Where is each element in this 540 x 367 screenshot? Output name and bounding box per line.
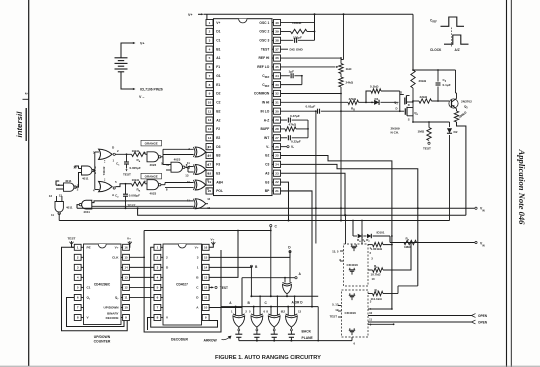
U1 pin 32 (COMMON) [254,90,281,96]
wire XOR A out [205,151,208,153]
label DIG GND on TEST pin [281,47,304,51]
switch block CD4016 lower [330,290,373,337]
svg-text:47kΩ: 47kΩ [349,97,357,101]
svg-text:ORANGE: ORANGE [145,142,158,146]
svg-text:D1: D1 [375,97,379,101]
transistor Q3 2N169 [394,91,413,113]
svg-text:0.1μF: 0.1μF [443,83,451,87]
svg-text:4023: 4023 [150,163,157,167]
resistor 1M clock test [418,122,432,151]
svg-text:G1: G1 [216,74,221,78]
svg-text:26: 26 [275,145,279,149]
U3 pin right 9 [202,315,210,321]
gate 4030 display XOR 1 [231,278,247,327]
wire XOR D out [206,203,208,205]
wire XOR inputs from 4023 [92,149,194,206]
U1 pin 24 (C3) [265,161,280,167]
svg-text:7: 7 [209,74,211,78]
wire battery - to ICL7106 PIN26 [121,72,133,89]
svg-text:10.7kΩ: 10.7kΩ [371,272,382,276]
svg-text:0.005μF: 0.005μF [130,166,141,170]
wire 4023A to 4023C [161,157,171,170]
svg-text:24: 24 [275,163,279,167]
svg-text:10: 10 [369,311,373,315]
svg-text:1MΩ: 1MΩ [404,245,411,249]
svg-text:29: 29 [275,118,279,122]
svg-text:COUNTER: COUNTER [94,340,111,344]
gate 4030 XOR B [188,163,209,176]
svg-text:10: 10 [124,306,128,310]
U1 pin 28 (BUFF) [261,126,281,132]
svg-text:11: 11 [369,317,372,321]
gate 4011 C vertical [49,194,73,217]
svg-text:TEST: TEST [220,286,228,290]
svg-text:G3: G3 [265,180,270,184]
svg-text:Application Note 046: Application Note 046 [517,149,527,226]
svg-text:IN LO: IN LO [261,109,270,113]
U2 pin 8 [74,315,89,321]
svg-text:POL: POL [216,189,223,193]
svg-text:ARROW: ARROW [204,339,218,343]
svg-text:13: 13 [204,276,208,280]
page right rules [507,0,512,367]
resistor RA 1.001k [368,242,393,251]
svg-text:0.01μF: 0.01μF [306,105,316,109]
svg-text:10: 10 [204,306,208,310]
U1 pin 13 (F2) [206,126,220,132]
svg-text:CLK: CLK [112,256,119,260]
svg-text:1: 1 [209,21,211,25]
U2 pin 3 [74,264,83,270]
wire OSC1 to rail [281,14,315,40]
wire lcd common rail [239,307,356,346]
svg-text:BINARY: BINARY [107,312,118,316]
svg-text:12: 12 [208,118,212,122]
wire decoder A row to node A [209,278,242,308]
wire bus VIN2 [390,241,477,243]
capacitor 0.22uF INT [281,135,309,143]
wire IN LO to Q4 [341,110,401,112]
capacitor 0.01uF IN LO [281,105,342,114]
svg-text:35: 35 [275,65,279,69]
U3 pin left 5 [154,284,163,290]
U3 pin left 6 [154,294,163,300]
gate XOR big A-OR-D [283,282,292,296]
svg-text:10kΩ: 10kΩ [132,178,140,182]
U1 pin 29 (A-Z) [264,117,281,123]
wire 4011D out to VIN bus [77,205,79,209]
U3 pin left 4 [154,274,163,280]
gate 4030 display XOR 2 [249,295,265,327]
U1 pin 25 (G2) [265,152,281,158]
svg-text:16: 16 [204,245,208,249]
svg-text:10: 10 [372,277,376,281]
svg-text:D2: D2 [216,92,220,96]
svg-text:V –: V – [139,95,144,99]
svg-text:C1: C1 [87,286,91,290]
node C [270,224,278,296]
svg-text:F1: F1 [216,65,220,69]
svg-text:S: S [400,91,402,95]
wire XOR C out [205,184,208,186]
svg-text:5.1kΩ: 5.1kΩ [370,85,379,89]
wire decoder B row to node B [209,266,251,267]
svg-text:4023: 4023 [174,158,181,162]
svg-text:4011: 4011 [82,177,89,181]
svg-text:RA RB RC: RA RB RC [357,238,370,243]
svg-text:13: 13 [208,127,212,131]
wire 1M top link [412,101,449,123]
U1 pin 21 (BP) [265,188,281,194]
U1 pin 9 (D2) [206,90,221,96]
potentiometer 1k [339,58,352,73]
svg-text:A OR D: A OR D [292,301,304,305]
wire IN LO down [315,110,317,243]
resistor RA 10k [115,149,147,163]
U1 pin 15 (D3) [206,144,221,150]
U1 pin 38 (OSC 3) [259,37,280,43]
svg-text:B1: B1 [216,47,220,51]
wire 4023B out [161,184,165,186]
wire lower box row9 [368,323,395,325]
wire clock top node [412,69,455,71]
wire 4011B inputs [56,181,64,189]
U2 pin 2 [74,254,83,260]
U1 pin 39 (OSC 2) [259,28,280,34]
wire REF HI [281,57,342,59]
wire rail to pot top [340,14,343,59]
resistor 20k [411,70,427,101]
wire counter to decoder rows [129,267,154,297]
svg-text:DIG GND: DIG GND [290,47,304,51]
U3 pin right 12 [196,284,209,290]
gate 74C32 OR A [93,145,119,162]
gate 4023 A [144,151,163,167]
svg-text:20kΩ: 20kΩ [419,79,427,83]
gate 4011 B [58,179,79,198]
wire COMMON [281,93,342,221]
U1 pin 5 (A1) [206,55,221,61]
svg-text:15: 15 [204,255,208,259]
U1 pin 3 (C1) [206,37,221,43]
U1 pin 27 (INT) [264,135,281,141]
svg-text:A-Z: A-Z [264,118,270,122]
svg-text:F3: F3 [216,163,220,167]
svg-text:12: 12 [207,197,210,201]
svg-text:DECODE: DECODE [106,316,119,320]
wire CREF- loop [281,75,303,85]
labels A B C AORD [229,301,303,306]
U2 pin 16 [115,244,130,250]
label ORANGE bottom [141,173,162,179]
node V- pin26 [281,145,295,149]
svg-text:V+: V+ [216,21,220,25]
resistor 22k [412,95,449,103]
U1 pin 19 (AB4) [206,179,223,185]
U1 pin 4 (B1) [206,46,221,52]
svg-text:B2: B2 [216,109,220,113]
label V+ decoder [209,237,215,247]
svg-text:11: 11 [208,109,212,113]
U1 pin 26 (V-) [266,144,280,150]
U1 pin 17 (F3) [206,161,220,167]
U3 pin right 14 [197,264,209,270]
svg-text:0.22μF: 0.22μF [291,139,301,143]
wire switch control droppers [345,214,363,244]
wire bus VIN1 [77,207,477,209]
gate 4023 C [166,158,190,178]
svg-text:40: 40 [275,21,279,25]
svg-text:16: 16 [124,245,128,249]
U1 pin 6 (F1) [206,64,220,70]
svg-text:INT: INT [264,136,269,140]
wire counter loop [62,247,128,330]
IC U1 ICL7106 body [214,19,273,196]
U2 pin 5 [74,284,90,290]
svg-text:V+: V+ [127,237,131,241]
label 74C32 [102,160,106,182]
svg-text:33: 33 [275,83,279,87]
svg-text:25: 25 [275,154,279,158]
U3 pin left 8 [154,315,169,321]
svg-text:1.001kΩ: 1.001kΩ [371,247,383,251]
wire 4011B out to 4011A in [75,166,82,187]
U1 pin 23 (A3) [265,170,280,176]
U2 pin 15 [112,254,129,260]
svg-text:13: 13 [185,173,189,177]
svg-text:D2: D2 [454,130,458,134]
wire C3 exit [281,164,418,286]
svg-text:V+: V+ [140,42,145,46]
resistor 47k BUFF [281,123,309,132]
diodes ID101 [353,230,390,243]
page bottom edge [0,365,540,367]
svg-text:22: 22 [275,180,279,184]
svg-text:14: 14 [204,266,208,270]
svg-text:24kΩ: 24kΩ [346,81,354,85]
svg-text:2: 2 [24,93,28,95]
wire 4011A out to OR inputs [93,152,99,190]
svg-text:2N3702: 2N3702 [461,100,472,104]
svg-text:E2: E2 [216,136,220,140]
label TEST counter [68,237,76,248]
svg-text:34: 34 [275,74,279,78]
svg-text:intersil: intersil [15,111,24,138]
wiper arrow REF LO [281,66,339,68]
LCD segment 3 [271,327,278,340]
wire decoder C test arrow [209,286,228,290]
svg-text:E1: E1 [216,83,220,87]
resistor RX 1M [404,236,417,249]
svg-text:15: 15 [124,255,128,259]
svg-text:N CH.: N CH. [391,130,400,134]
U3 pin right 16 [195,244,209,250]
svg-text:TEST: TEST [123,172,131,176]
svg-text:DECODER: DECODER [171,338,189,342]
svg-text:C1: C1 [216,39,220,43]
wire switch box stubs [338,251,344,317]
svg-text:3: 3 [209,38,211,42]
wire integrator rail [307,120,309,138]
wire backplane bus [221,306,318,308]
wire G3 exit [281,182,289,220]
svg-text:10: 10 [208,100,212,104]
svg-text:IN HI: IN HI [262,101,270,105]
svg-text:CD4016: CD4016 [345,311,357,315]
svg-text:D: D [396,106,398,110]
page left rule [28,0,30,366]
capacitor 0.47uF A-Z [281,114,309,123]
capacitor 100pF OSC [281,35,315,43]
svg-text:11: 11 [204,296,208,300]
svg-text:32: 32 [275,92,279,96]
gate 4011 D [79,200,92,214]
svg-text:FIGURE 1. AUTO RANGING CIRCUI: FIGURE 1. AUTO RANGING CIRCUITRY [215,355,321,361]
wire V+ to U1 pin 1 [206,14,208,19]
resistor 47k IN HI [348,97,372,111]
U2 pin 10 [104,304,130,310]
wire bus mid2 [59,220,449,222]
LCD segment 2 [253,327,260,340]
U3 pin right 15 [197,254,209,260]
gate 4011 A [73,166,96,181]
wire OPEN 2 [368,320,488,325]
intersil logo [15,108,26,141]
capacitor C2 0.005uF [115,183,140,208]
label ORANGE top [141,140,162,146]
svg-text:PLANE: PLANE [302,336,314,340]
U3 pin left 2 [154,254,168,260]
capacitor 1uF CREF [281,70,302,79]
svg-text:100kΩ: 100kΩ [292,21,302,25]
svg-text:TEST: TEST [423,147,431,151]
svg-text:CD4029BC: CD4029BC [94,283,111,287]
wire G2 to switch column [281,156,392,310]
gate 4030 display XOR 3 [266,295,282,327]
svg-text:UP/DOWN: UP/DOWN [94,335,111,339]
U3 pin right 13 [196,274,209,280]
wire ID101 riser [352,220,390,243]
diode D2 [447,122,458,221]
svg-text:BACK: BACK [302,330,312,334]
svg-text:2: 2 [209,30,211,34]
LCD segment 4 [288,327,295,340]
wire battery + to V+ [121,43,133,58]
transistor Q4 2N169 [401,101,419,121]
svg-text:31: 31 [275,100,279,104]
gate 4023 B [144,179,168,195]
U1 pin 12 (A2) [206,117,221,123]
svg-text:V-: V- [291,145,294,149]
svg-text:5, 13: 5, 13 [332,303,339,307]
gate 4030 XOR C [187,178,209,191]
svg-text:BP: BP [265,189,270,193]
U1 pin 33 (CREF-) [262,82,280,88]
svg-text:OSC 1: OSC 1 [259,21,269,25]
svg-text:13: 13 [49,194,53,198]
svg-text:TEST: TEST [330,314,338,318]
label ARROW [204,336,232,343]
svg-text:12: 12 [204,286,208,290]
svg-text:D: D [408,103,410,107]
node D [288,245,291,282]
svg-text:30: 30 [275,109,279,113]
U3 pin left 1 [154,244,163,250]
svg-text:4011: 4011 [83,210,90,214]
svg-text:CLOCK: CLOCK [430,48,442,52]
svg-text:39: 39 [275,30,279,34]
wire BP exit [281,191,313,307]
svg-text:1: 1 [197,266,199,270]
U1 pin 22 (G3) [265,179,281,185]
svg-text:A2: A2 [216,118,220,122]
wire bus mid1 [138,208,466,216]
svg-text:OSC 2: OSC 2 [259,30,269,34]
resistor 100k OSC [281,21,316,34]
wire counter CLK feed [129,256,144,258]
U1 pin 8 (E1) [206,82,220,88]
U2 pin 1 [74,244,90,250]
svg-text:S: S [408,117,410,121]
svg-text:4011: 4011 [65,179,72,183]
resistor 24k [339,74,354,94]
svg-text:12: 12 [124,286,128,290]
U1 pin 36 (REF HI) [258,55,280,61]
svg-text:4023: 4023 [150,191,157,195]
transistor Q5 2N3702 [449,70,472,110]
U1 pin 31 (IN HI) [262,99,281,105]
svg-text:UP/DOWN: UP/DOWN [104,306,120,310]
svg-text:12: 12 [282,309,286,313]
svg-text:4011: 4011 [66,206,73,210]
U2 pin 12 [121,284,129,290]
svg-text:1kΩ: 1kΩ [346,67,352,71]
svg-text:OPEN: OPEN [478,321,488,325]
U2 pin 4 [74,274,83,280]
U3 pin left 3 [154,264,169,270]
svg-text:0.005μF: 0.005μF [129,194,140,198]
caption UP/DOWN COUNTER [94,335,111,344]
svg-text:36: 36 [275,56,279,60]
svg-text:13: 13 [298,309,302,313]
svg-text:3: 3 [197,256,199,260]
svg-text:27: 27 [275,136,279,140]
switch block CD4016 upper [332,244,373,286]
U1 pin 18 (E3) [206,170,220,176]
node B [250,265,258,296]
svg-text:AB4: AB4 [216,180,223,184]
svg-text:TEST: TEST [261,47,269,51]
U2 label BINARY DECODE [106,312,119,320]
svg-text:1MΩ: 1MΩ [418,130,425,134]
wire rail corner to 20k [412,14,414,70]
U2 pin 6 [74,294,91,300]
resistor RB 10k [115,178,147,193]
resistor 100k emitter [454,109,468,215]
wire C branch [144,230,272,232]
U1 pin 34 (CREF+) [262,73,280,79]
U1 pin 40 (OSC 1) [259,20,280,26]
svg-text:37: 37 [275,47,279,51]
U2 pin 14 [121,264,129,270]
svg-text:6: 6 [209,65,211,69]
svg-text:28: 28 [275,127,279,131]
U1 pin 7 (G1) [206,73,221,79]
gate 4030 XOR A [188,145,209,158]
svg-text:A1: A1 [216,56,220,60]
svg-text:C2: C2 [216,101,220,105]
svg-text:10: 10 [187,180,190,184]
